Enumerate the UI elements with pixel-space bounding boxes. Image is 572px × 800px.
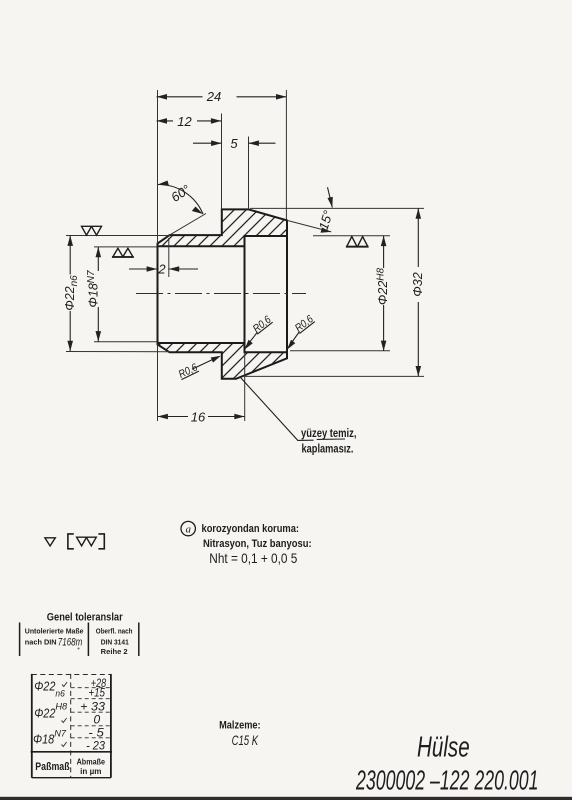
svg-text:Nitrasyon, Tuz banyosu:: Nitrasyon, Tuz banyosu:	[203, 538, 312, 550]
extension line flange bottom (for phi32)	[244, 375, 424, 377]
fit table: top dashed line	[32, 674, 111, 676]
15 degree taper angle dimension	[287, 187, 336, 233]
svg-text:nach DIN: nach DIN	[25, 637, 57, 646]
extension line left end face (top)	[157, 90, 159, 244]
svg-text:Paßmaß: Paßmaß	[35, 761, 70, 773]
svg-text:Genel toleranslar: Genel toleranslar	[47, 611, 124, 623]
R0,6 leader right (end face corner)	[287, 313, 316, 350]
bottom scan edge	[0, 797, 572, 800]
general tolerances box: middle bar	[87, 623, 89, 657]
svg-text:Reihe 2: Reihe 2	[101, 647, 128, 656]
svg-text:24: 24	[206, 89, 221, 104]
extension line flange top (for phi32)	[250, 207, 424, 209]
60 degree chamfer angle dimension	[158, 181, 206, 236]
part section upper half (hatched)	[158, 209, 288, 246]
right end face edge	[286, 220, 288, 358]
svg-text:Untolerierte Maße: Untolerierte Maße	[25, 626, 84, 635]
svg-text:- 5: - 5	[88, 725, 104, 739]
extension line taper start (for 5)	[248, 137, 250, 210]
fit table: bottom border	[32, 777, 111, 779]
svg-text:16: 16	[191, 409, 206, 424]
svg-text:Φ22: Φ22	[34, 679, 55, 693]
svg-text:kaplamasız.: kaplamasız.	[302, 444, 354, 456]
extension line OD top (for phi22 n6)	[66, 235, 170, 237]
dimension 16	[158, 409, 245, 424]
finish symbol legend: close bracket	[98, 534, 104, 549]
extension line chamfer end (for 2)	[168, 238, 170, 277]
finish symbol pair under bore extension (two up triangles)	[112, 248, 134, 257]
general tolerances box: right bar	[138, 623, 140, 657]
dimension 24	[157, 89, 287, 104]
svg-text:n6: n6	[55, 688, 65, 699]
surface note leader	[240, 377, 345, 440]
svg-text:0: 0	[94, 713, 101, 727]
fit table: right border	[110, 674, 112, 778]
dimension phi32 (right)	[411, 208, 425, 376]
svg-text:Hülse: Hülse	[417, 732, 470, 764]
svg-text:Malzeme:: Malzeme:	[219, 719, 261, 731]
svg-text:Φ32: Φ32	[411, 272, 425, 296]
dimension 12	[157, 114, 222, 129]
extension line counterbore top (for phi22 H8)	[313, 235, 390, 237]
extension line bore top (for phi18 N7)	[94, 246, 158, 248]
finish symbol legend: two triangles	[77, 537, 97, 546]
svg-text:N7: N7	[54, 728, 66, 739]
part section lower half (hatched)	[158, 343, 288, 379]
svg-text:12: 12	[177, 114, 192, 129]
dimension phi22 H8 (right)	[375, 236, 390, 351]
svg-text:Φ18: Φ18	[33, 733, 54, 747]
svg-text:Nht = 0,1 + 0,0 5: Nht = 0,1 + 0,0 5	[209, 550, 297, 566]
svg-text:- 23: - 23	[86, 738, 105, 752]
extension line OD bottom (for phi22 n6)	[66, 351, 170, 353]
svg-text:yüzey temiz,: yüzey temiz,	[301, 428, 357, 440]
counterbore face edge (seen through bore)	[244, 236, 246, 352]
fit table row 1 checkmark	[62, 682, 67, 687]
dimension 5 (arrows outside)	[193, 136, 276, 151]
fit table: dashed value separators	[71, 687, 111, 689]
fit table row 2 checkmark	[62, 718, 67, 723]
extension line bore bottom (for phi18 N7)	[94, 341, 159, 343]
extension line left end face (bottom, for 16)	[157, 344, 159, 421]
svg-text:5: 5	[230, 136, 238, 151]
svg-text:korozyondan koruma:: korozyondan koruma:	[202, 523, 300, 535]
finish symbol legend: single triangle	[45, 538, 55, 546]
dimension phi18 N7 (left)	[86, 247, 101, 342]
surface note text	[301, 428, 357, 456]
svg-text:Abmaße: Abmaße	[77, 758, 106, 767]
svg-text:2300002 –122 220.001: 2300002 –122 220.001	[355, 764, 538, 795]
corrosion note: circled a	[181, 521, 195, 535]
svg-text:in µm: in µm	[80, 767, 101, 776]
svg-text:C15 K: C15 K	[232, 732, 259, 748]
svg-text:DIN 3141: DIN 3141	[101, 637, 129, 646]
svg-text:+15: +15	[88, 685, 105, 699]
general tolerances box: left bar	[19, 623, 21, 657]
extension line counterbore bottom (for phi22 H8)	[290, 350, 390, 352]
dimension phi22 n6 (left)	[63, 236, 80, 352]
extension line right end face (for 24)	[285, 90, 287, 220]
fit table row 3 checkmark	[62, 742, 67, 747]
fit table: header separator	[31, 751, 112, 753]
dimension 2 (arrows outside)	[129, 261, 198, 276]
centerline (axis)	[136, 293, 306, 295]
svg-text:a: a	[185, 524, 191, 536]
svg-text:+ 33: + 33	[80, 700, 105, 714]
fit table: middle dashed divider	[70, 674, 72, 778]
left end face edge (seen through bore)	[157, 244, 159, 345]
svg-text:H8: H8	[55, 701, 67, 712]
fit table: left border	[31, 674, 33, 778]
svg-text:Φ22: Φ22	[34, 707, 55, 721]
R0,6 leader middle (counterbore corner)	[245, 313, 275, 349]
svg-text:7168m: 7168m	[58, 637, 83, 649]
finish symbol pair on OD extension (two down triangles)	[82, 226, 102, 235]
stray pencil tick under 7168m	[78, 648, 80, 650]
svg-text:Oberfl. nach: Oberfl. nach	[96, 626, 133, 635]
extension line flange left face (for 12)	[221, 114, 223, 210]
R0,6 leader bottom-left	[177, 356, 221, 381]
finish symbol legend: open bracket	[68, 534, 74, 549]
svg-text:2: 2	[157, 261, 166, 276]
extension line counterbore face (for 16)	[244, 352, 246, 421]
finish symbol pair under counterbore extension (two up triangles)	[346, 237, 369, 247]
